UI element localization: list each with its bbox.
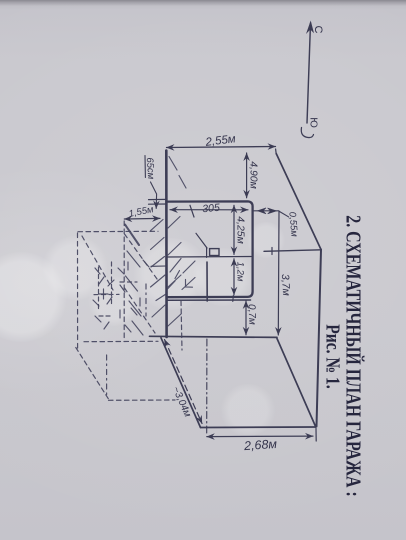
dim 0,55 horizontal (253, 210, 279, 212)
dash vertical x=146 (145, 284, 147, 316)
svg-text:2,68м: 2,68м (243, 437, 278, 453)
tick right of 2,55 dim (275, 149, 278, 154)
hatch inside inner room (170, 259, 181, 273)
inner room rectangle (bold, rounded right corners) (167, 201, 253, 297)
hatch left of wall (151, 220, 164, 231)
dashed rect left (77, 233, 79, 349)
north arrowhead (306, 21, 314, 35)
1,2 extension tick (232, 296, 235, 302)
parallelogram top edge (150, 336, 278, 337)
inner room second bottom line (167, 299, 251, 301)
65см text bar (144, 156, 146, 178)
svg-text:0,55м: 0,55м (286, 211, 299, 237)
middle line stub left of wall (151, 265, 166, 267)
slash over 305 line (190, 205, 194, 217)
middle shelf line (167, 256, 251, 259)
door box (210, 249, 219, 256)
dashed hatch diagonal c (125, 288, 156, 333)
hatch right of wall (168, 217, 180, 229)
svg-text:3,7м: 3,7м (279, 274, 292, 296)
dim 1,55 horizontal (124, 217, 160, 220)
dim 4,25 vertical (233, 205, 235, 254)
65см gap lines (149, 198, 168, 200)
svg-text:305: 305 (202, 202, 221, 215)
inner dashed horizontal b (99, 315, 112, 317)
watermark light blobs (0, 252, 67, 342)
door post vertical (206, 248, 208, 258)
dimension line 2,55м top (167, 147, 276, 148)
parallelogram bottom edge (201, 426, 316, 429)
inner dashed vertical b (111, 262, 113, 306)
svg-text:1,2м: 1,2м (235, 262, 246, 282)
svg-text:4,90м: 4,90м (248, 161, 260, 189)
2,68 right extension tick (315, 429, 317, 442)
inner dashed vertical a (98, 267, 100, 309)
hatch top-left of garage (169, 157, 177, 171)
north arc under Ю (301, 128, 313, 138)
dim 2,68 horizontal (207, 435, 313, 438)
dashed vertical x=181 (181, 301, 182, 350)
north arrow line (307, 23, 311, 123)
right wall vertical (317, 250, 322, 427)
hatch wall zone thick (125, 225, 139, 246)
dim 4,90 vertical (246, 153, 248, 198)
svg-text:4,25м: 4,25м (235, 216, 247, 244)
hatch stroke across wall bottom (156, 294, 166, 301)
roof diagonal (276, 154, 321, 250)
svg-text:Ю: Ю (308, 117, 320, 128)
dash vertical inside dashed parallelogram (106, 355, 108, 398)
svg-text:0,7м: 0,7м (246, 304, 258, 325)
svg-text:1,55м: 1,55м (128, 204, 155, 220)
dashed hatch diagonal b (125, 234, 159, 281)
inner dashed horizontal a (94, 293, 119, 295)
svg-text:С: С (312, 26, 324, 34)
dashed parallelogram left slant (76, 348, 109, 400)
svg-text:65см: 65см (144, 157, 157, 180)
dim 3,04 slanted dashed (165, 340, 203, 424)
dashed rect bottom (84, 340, 158, 342)
dashed rect top (78, 230, 158, 232)
svg-text:Рис. № 1.: Рис. № 1. (322, 324, 344, 388)
dim 1,2 vertical (233, 259, 235, 295)
door swing diagonal (196, 233, 207, 248)
dim 3,7 vertical (277, 211, 280, 335)
dashes y=282 (120, 281, 137, 283)
parallelogram right slant (277, 339, 316, 428)
dim 0,7 vertical (245, 301, 247, 335)
left wall (bold) (165, 151, 168, 338)
65см leader (151, 182, 157, 209)
scribbles in dashed area (95, 268, 100, 274)
dashed extension x=124 (123, 221, 125, 340)
right-wall top horizontal y=250 (264, 250, 321, 252)
lower divider below middle line (206, 262, 208, 301)
2,68 left extension dash-dot (206, 339, 208, 434)
0,55 leader elbow (280, 212, 289, 217)
dim 305 line (170, 209, 248, 211)
parallelogram left slant (161, 338, 201, 428)
tick on y250 line (271, 248, 273, 255)
dashed parallelogram bottom (109, 399, 176, 401)
dashed hatch diagonal a (82, 236, 113, 290)
